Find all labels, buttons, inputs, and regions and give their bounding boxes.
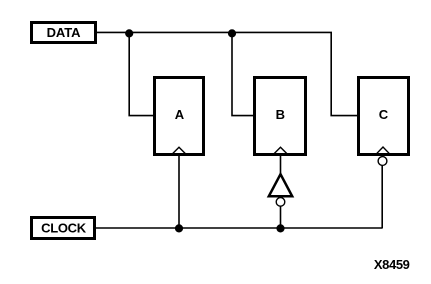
inverter triangle B clock <box>269 174 292 196</box>
flip-flop A clock caret <box>172 147 187 155</box>
flip-flop B box <box>255 78 306 155</box>
junction dot clock-A <box>175 224 183 232</box>
wire data to B <box>232 32 254 115</box>
wire data to A <box>129 32 154 115</box>
svg-text:CLOCK: CLOCK <box>41 221 87 236</box>
wire clock to C (up to bubble) <box>381 166 383 229</box>
wire data to C (corner down then right) <box>331 32 357 115</box>
wire data bus horizontal <box>97 31 332 33</box>
wire clock to A <box>178 156 180 228</box>
flip-flop A box <box>155 78 204 155</box>
svg-text:DATA: DATA <box>47 25 81 40</box>
node CLOCK box <box>32 218 95 239</box>
wire B clock to inverter <box>280 156 282 175</box>
svg-text:X8459: X8459 <box>374 257 410 272</box>
svg-text:A: A <box>175 107 185 122</box>
node DATA box <box>32 23 96 43</box>
wire clock bus horizontal <box>96 227 382 229</box>
junction dot clock-inverter <box>276 224 284 232</box>
flip-flop C clock caret <box>376 147 391 155</box>
inverter bubble B clock <box>276 198 285 207</box>
junction dot data-A <box>125 29 133 37</box>
flip-flop B clock caret <box>273 147 288 155</box>
inversion bubble C clock <box>378 157 387 166</box>
flip-flop C box <box>359 78 409 155</box>
svg-text:C: C <box>379 107 389 122</box>
junction dot data-B <box>228 29 236 37</box>
svg-text:B: B <box>276 107 285 122</box>
wire inverter bubble to clock bus <box>280 206 282 228</box>
